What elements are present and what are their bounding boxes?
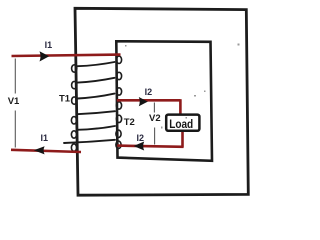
svg-text:V1: V1	[8, 96, 20, 107]
wire secondary right lower (out of Load)	[181, 131, 184, 148]
winding left-side loops	[71, 65, 76, 152]
wire secondary bottom (I2 return)	[117, 146, 183, 147]
svg-text:I1: I1	[41, 133, 49, 143]
wire primary bottom (I1 return)	[11, 150, 81, 152]
svg-text:T2: T2	[124, 117, 135, 128]
svg-text:I1: I1	[45, 40, 53, 50]
svg-text:V2: V2	[149, 113, 161, 124]
svg-text:I2: I2	[145, 87, 153, 97]
wire primary top (I1 in)	[12, 55, 121, 56]
load box	[166, 115, 199, 131]
arrow I1 top (right)	[40, 51, 50, 61]
arrow I2 bottom (left)	[134, 142, 145, 151]
arrow I1 bottom (left)	[34, 146, 45, 154]
arrow I2 top (right)	[139, 97, 148, 106]
V2 sense lead lower segment	[154, 128, 156, 145]
svg-text:I2: I2	[137, 133, 145, 143]
V1 sense lead upper segment	[14, 59, 16, 94]
svg-text:Load: Load	[169, 117, 193, 131]
transformer core outer edge	[75, 8, 248, 195]
winding right-side loops	[116, 56, 122, 148]
svg-text:T1: T1	[59, 93, 71, 104]
wire secondary right upper (into Load)	[179, 99, 182, 115]
winding T1-T2 turn lines	[64, 62, 115, 143]
scan specks	[125, 44, 240, 129]
transformer core window	[116, 41, 212, 161]
V1 sense lead lower segment	[14, 111, 16, 148]
wire secondary top (I2 out)	[117, 99, 181, 102]
V2 sense lead upper segment	[153, 103, 155, 113]
